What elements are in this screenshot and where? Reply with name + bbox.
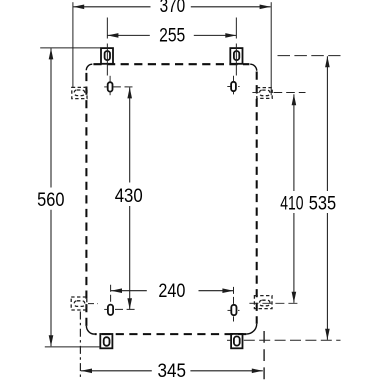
keyhole slot top-left — [108, 82, 113, 91]
dimension 370 line — [73, 5, 270, 10]
keyhole slot bottom-right — [231, 305, 236, 315]
extension line 370 left — [72, 2, 74, 87]
dimension 430 line — [127, 87, 132, 309]
mounting tab top-right — [230, 48, 242, 64]
mounting tab bottom-right — [231, 334, 242, 348]
centre line bracket top-right — [252, 92, 258, 94]
extension line 240 right — [233, 287, 235, 304]
svg-text:370: 370 — [160, 0, 186, 17]
svg-text:430: 430 — [115, 185, 143, 207]
dimension 560 line — [49, 48, 54, 346]
dimension 535 line — [325, 56, 330, 340]
svg-text:535: 535 — [309, 192, 337, 214]
dimension 345 line — [81, 369, 263, 374]
centre line slot bottom-left — [104, 308, 135, 310]
dimension 410 line — [292, 94, 297, 302]
extension line 345 left (bracket slot centre) — [79, 312, 81, 380]
reference line 535 bottom (dashed) — [227, 339, 231, 341]
svg-text:240: 240 — [158, 280, 185, 302]
svg-text:410: 410 — [280, 192, 303, 214]
reference line 535 top (dashed) — [278, 55, 341, 57]
dimension 240 line — [111, 288, 233, 293]
extension line 345 right (bracket slot centre) — [263, 331, 265, 380]
centre line slot top-right — [227, 76, 239, 95]
wall bracket bottom-left (hidden/dashed) — [71, 297, 87, 310]
wall bracket bottom-right (hidden/dashed) — [254, 296, 272, 309]
svg-text:255: 255 — [159, 25, 185, 47]
wall bracket top-left (hidden/dashed) — [72, 87, 87, 98]
keyhole slot bottom-left — [108, 305, 113, 315]
reference line 560 bottom — [45, 346, 101, 348]
centre line bracket bottom-left — [88, 303, 98, 305]
mounting tab top-left — [101, 48, 113, 64]
extension line 255 right (tab centre line) — [235, 18, 237, 39]
reference line 560 top — [40, 47, 101, 49]
centre line bracket bottom-right — [249, 302, 300, 304]
dimension 255 line — [107, 33, 236, 38]
mounting tab bottom-left — [100, 334, 112, 348]
svg-text:345: 345 — [158, 360, 187, 380]
svg-text:560: 560 — [37, 189, 64, 211]
centre line slot top-left — [104, 76, 135, 95]
centre line slot bottom-right — [228, 309, 240, 311]
extension line 240 left — [110, 285, 112, 304]
extension line 255 left (tab centre line) — [106, 18, 108, 39]
enclosure body outline (dashed rounded rectangle) — [86, 64, 256, 334]
extension line 370 right — [270, 2, 272, 95]
keyhole slot top-right — [231, 82, 236, 91]
wall bracket top-right (hidden/dashed) — [257, 88, 272, 99]
